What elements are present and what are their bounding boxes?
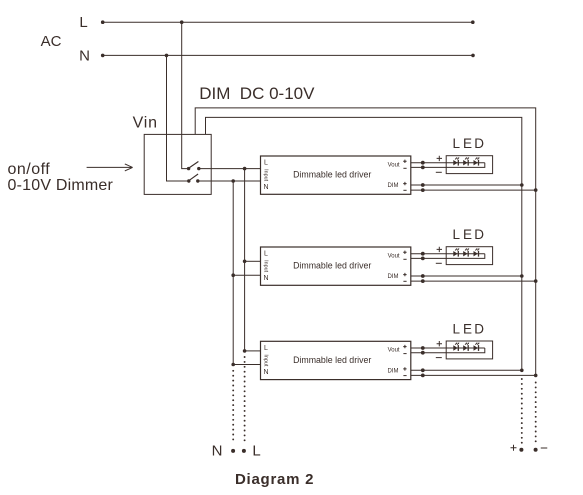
pin DIM- mark of driver U3 bbox=[403, 375, 406, 377]
polarity - of LED strip 2 bbox=[436, 262, 442, 264]
svg-text:Vin: Vin bbox=[133, 114, 158, 131]
LED D1b bbox=[463, 160, 467, 165]
junction DIM+ rail U3 bbox=[520, 369, 524, 373]
pin DIM- mark of driver U1 bbox=[403, 189, 406, 191]
polarity - of LED strip 1 bbox=[436, 171, 442, 173]
switch S1b contact right bbox=[196, 179, 199, 182]
wire DIM+ rail (inner) bbox=[206, 117, 522, 370]
svg-text:Input: Input bbox=[262, 354, 268, 366]
junction DIM- rail U1 bbox=[534, 188, 538, 192]
svg-text:Dimmable led driver: Dimmable led driver bbox=[293, 170, 371, 180]
wire Vout+ driver U2 to LED strip bbox=[411, 253, 485, 255]
svg-text:LED: LED bbox=[453, 227, 485, 242]
wire DIM- rail (outer) bbox=[195, 108, 536, 376]
polarity + of LED strip 2 bbox=[437, 247, 442, 252]
svg-text:L: L bbox=[264, 160, 268, 167]
wire switched-L rail bbox=[244, 169, 246, 351]
LED strip box 1 bbox=[446, 156, 492, 174]
svg-text:LED: LED bbox=[453, 136, 485, 151]
svg-text:N: N bbox=[263, 275, 268, 282]
LED D2b bbox=[463, 251, 467, 256]
dimmer box (0-10V dimmer) bbox=[144, 134, 211, 194]
connector dot DIM+ U1 bbox=[421, 183, 425, 187]
pin Vout+ mark of driver U2 bbox=[403, 251, 406, 254]
driver U3 box bbox=[261, 341, 411, 379]
connector dot Vout- U1 bbox=[421, 166, 425, 170]
pin DIM+ mark of driver U2 bbox=[403, 273, 406, 276]
wire switched-N rail bbox=[232, 181, 234, 365]
connector dot DIM- U3 bbox=[421, 374, 425, 378]
wire N rail to driver U2 N input bbox=[233, 274, 260, 276]
svg-text:N: N bbox=[263, 369, 268, 376]
svg-text:Input: Input bbox=[262, 169, 268, 181]
driver U1 box bbox=[261, 156, 411, 194]
wire N bus bbox=[103, 54, 473, 56]
label - bottom right bbox=[541, 447, 548, 449]
svg-text:DIM: DIM bbox=[388, 368, 399, 374]
pin DIM+ mark of driver U3 bbox=[403, 367, 406, 370]
terminal dot N bottom bbox=[231, 449, 235, 453]
svg-text:N: N bbox=[79, 47, 90, 64]
pin DIM+ mark of driver U1 bbox=[403, 182, 406, 185]
LED strip box 2 bbox=[446, 247, 492, 265]
junction DIM- rail U2 bbox=[534, 279, 538, 283]
label + bottom right bbox=[511, 445, 517, 451]
wire L drop to dimmer switch bbox=[182, 22, 189, 168]
svg-text:AC: AC bbox=[41, 33, 62, 50]
wire N rail to driver U3 N input bbox=[233, 364, 260, 366]
svg-text:LED: LED bbox=[453, 321, 485, 336]
svg-text:Diagram 2: Diagram 2 bbox=[235, 471, 314, 488]
pin Vout+ mark of driver U3 bbox=[403, 345, 406, 348]
wire Vout+ driver U1 to LED strip bbox=[411, 162, 485, 164]
polarity - of LED strip 3 bbox=[436, 357, 442, 359]
junction DIM+ rail U2 bbox=[520, 274, 524, 278]
LED D3b bbox=[463, 345, 467, 350]
dotted continuation of N rail bbox=[232, 370, 234, 372]
LED D1a bbox=[453, 160, 457, 165]
junction L rail / driver U2 bbox=[243, 260, 247, 264]
driver U2 box bbox=[261, 247, 411, 285]
junction L rail / driver U3 bbox=[243, 349, 247, 353]
svg-text:Dimmable led driver: Dimmable led driver bbox=[293, 261, 371, 271]
switch S1b blade bbox=[189, 174, 198, 180]
wire Vout+ driver U3 to LED strip bbox=[411, 347, 485, 349]
switch S1a contact left bbox=[187, 167, 190, 170]
wire N drop to dimmer switch bbox=[167, 55, 189, 181]
terminal dot L start bbox=[101, 20, 105, 24]
svg-text:on/off: on/off bbox=[8, 161, 51, 178]
junction L bus to dimmer bbox=[180, 20, 184, 24]
svg-text:0-10V Dimmer: 0-10V Dimmer bbox=[8, 177, 114, 194]
connector dot DIM- U1 bbox=[421, 188, 425, 192]
wire L rail to driver U3 L input bbox=[245, 350, 261, 352]
LED D2c bbox=[474, 251, 478, 256]
LED D2a bbox=[453, 251, 457, 256]
wire switch to driver U1 L input bbox=[199, 168, 261, 170]
connector dot Vout- U2 bbox=[421, 257, 425, 261]
switch S1b contact left bbox=[187, 179, 190, 182]
wire LED strip return bend bbox=[411, 163, 485, 168]
pin Vout+ mark of driver U1 bbox=[403, 160, 406, 163]
junction DIM+ rail U1 bbox=[520, 183, 524, 187]
terminal dot N start bbox=[101, 54, 105, 58]
arrow into dimmer bbox=[87, 164, 133, 171]
pin Vout- mark of driver U1 bbox=[403, 167, 406, 169]
switch S1a blade bbox=[189, 162, 199, 169]
svg-text:DIM: DIM bbox=[388, 274, 399, 280]
terminal dot N end bbox=[471, 54, 475, 58]
connector dot DIM+ U2 bbox=[421, 274, 425, 278]
polarity + of LED strip 1 bbox=[437, 156, 442, 161]
wire DIM+ driver U1 to rail bbox=[411, 184, 522, 186]
dotted continuation of L rail bbox=[244, 356, 246, 358]
pin DIM- mark of driver U2 bbox=[403, 280, 406, 282]
terminal dot + bottom bbox=[519, 448, 523, 452]
junction N rail / driver U2 bbox=[231, 273, 235, 277]
svg-text:L: L bbox=[252, 443, 260, 460]
polarity + of LED strip 3 bbox=[437, 341, 442, 346]
connector dot Vout+ U1 bbox=[421, 161, 425, 165]
junction N bus to dimmer bbox=[165, 54, 169, 58]
junction N rail / driver U1 bbox=[231, 179, 235, 183]
svg-text:Vout: Vout bbox=[388, 253, 400, 259]
junction L rail / driver U1 bbox=[243, 167, 247, 171]
LED D3c bbox=[474, 345, 478, 350]
connector dot Vout- U3 bbox=[421, 351, 425, 355]
wire DIM- driver U1 to rail bbox=[411, 189, 536, 191]
LED strip box 3 bbox=[446, 341, 492, 359]
switch S1a contact right bbox=[197, 167, 200, 170]
connector dot DIM+ U3 bbox=[421, 368, 425, 372]
wire LED strip return bend bbox=[411, 254, 485, 259]
wire switch to driver U1 N input bbox=[198, 180, 261, 182]
svg-text:N: N bbox=[263, 184, 268, 191]
svg-text:Vout: Vout bbox=[388, 348, 400, 354]
svg-text:L: L bbox=[79, 14, 87, 31]
wire L bus bbox=[103, 21, 473, 23]
wire LED strip return bend bbox=[411, 348, 485, 353]
svg-text:N: N bbox=[212, 443, 223, 460]
svg-text:L: L bbox=[264, 345, 268, 352]
LED D1c bbox=[474, 160, 478, 165]
svg-text:L: L bbox=[264, 251, 268, 258]
pin Vout- mark of driver U2 bbox=[403, 258, 406, 260]
svg-text:Input: Input bbox=[262, 260, 268, 272]
svg-text:Vout: Vout bbox=[388, 162, 400, 168]
terminal dot L bottom bbox=[242, 449, 246, 453]
LED D3a bbox=[453, 345, 457, 350]
connector dot DIM- U2 bbox=[421, 279, 425, 283]
wire DIM- driver U2 to rail bbox=[411, 280, 536, 282]
svg-text:DIM DC 0-10V: DIM DC 0-10V bbox=[199, 84, 315, 103]
svg-text:Dimmable led driver: Dimmable led driver bbox=[293, 355, 371, 365]
dotted continuation of DIM- rail bbox=[535, 382, 537, 384]
wire L rail to driver U2 L input bbox=[245, 260, 261, 262]
junction N rail / driver U3 bbox=[231, 363, 235, 367]
connector dot Vout+ U3 bbox=[421, 346, 425, 350]
terminal dot L end bbox=[471, 20, 475, 24]
wire DIM+ driver U2 to rail bbox=[411, 275, 522, 277]
junction DIM- rail U3 bbox=[534, 374, 538, 378]
dotted continuation of DIM+ rail bbox=[521, 378, 523, 380]
wire DIM+ driver U3 to rail bbox=[411, 369, 522, 371]
wire DIM- driver U3 to rail bbox=[411, 374, 536, 376]
svg-text:DIM: DIM bbox=[388, 183, 399, 189]
terminal dot - bottom bbox=[534, 448, 538, 452]
pin Vout- mark of driver U3 bbox=[403, 353, 406, 355]
connector dot Vout+ U2 bbox=[421, 252, 425, 256]
